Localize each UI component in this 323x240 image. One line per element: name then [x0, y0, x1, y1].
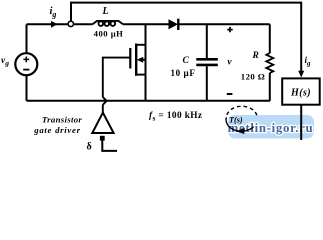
inductor L	[93, 21, 124, 26]
current arrow i_g on wire	[51, 21, 58, 28]
bottom rail	[27, 100, 271, 102]
MOSFET source stub	[136, 74, 145, 76]
wire: source bottom to rail	[26, 75, 28, 101]
wire: gate lead	[103, 58, 131, 98]
svg-text:10 µF: 10 µF	[171, 68, 196, 78]
svg-text:δ: δ	[87, 142, 92, 153]
wire: H(s) output down	[300, 105, 302, 140]
svg-text:fs = 100 kHz: fs = 100 kHz	[149, 111, 202, 123]
MOSFET channel bar	[135, 44, 137, 76]
svg-text:C: C	[183, 56, 190, 66]
svg-text:T(s): T(s)	[229, 116, 243, 125]
wire: gate lead below rail	[102, 105, 104, 114]
output + label	[227, 27, 232, 32]
svg-text:120 Ω: 120 Ω	[241, 72, 265, 82]
block H(s)	[282, 78, 320, 104]
loop gain T(s) circular arrow	[226, 106, 257, 131]
diode D1	[169, 19, 179, 29]
svg-text:Transistor: Transistor	[42, 115, 83, 125]
wire: left branch down to source	[26, 24, 28, 53]
wire: mid top wire	[123, 23, 169, 25]
capacitor C	[206, 24, 208, 58]
voltage source v_g	[15, 53, 37, 75]
driver input square	[100, 136, 105, 141]
MOSFET Q1 drain-source vertical	[145, 24, 147, 101]
svg-text:R: R	[252, 51, 259, 61]
wire: delta input	[102, 141, 117, 151]
wire: main top wire left segment	[27, 23, 93, 25]
svg-text:H(s): H(s)	[290, 88, 311, 99]
svg-text:L: L	[102, 6, 109, 17]
gate driver triangle	[92, 113, 113, 133]
watermark background box	[228, 115, 314, 139]
MOSFET drain stub	[136, 44, 145, 46]
wire: top sense rail from node to H(s)	[71, 3, 301, 72]
MOSFET gate bar	[129, 48, 131, 69]
svg-text:400 µH: 400 µH	[94, 29, 124, 39]
wire: top wire right of diode	[180, 23, 270, 25]
svg-text:vg: vg	[1, 56, 9, 68]
svg-text:gate driver: gate driver	[33, 125, 81, 135]
arrow into H(s)	[298, 71, 304, 78]
wire hop over rail (no connection)	[103, 97, 107, 105]
MOSFET body stub + arrow	[140, 59, 146, 61]
node circle (current sense tap)	[68, 21, 73, 26]
resistor R	[269, 24, 271, 53]
output - label	[227, 93, 233, 95]
